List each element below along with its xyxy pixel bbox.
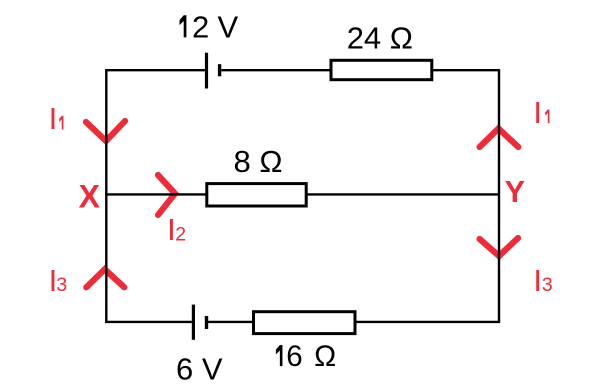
label 16 ohm <box>276 340 336 373</box>
current label I1 right <box>533 95 549 130</box>
current label I3 left <box>49 263 68 298</box>
svg-text:X: X <box>79 179 101 215</box>
svg-text:8 Ω: 8 Ω <box>234 144 283 179</box>
wire top-left segment <box>105 69 205 71</box>
svg-text:I: I <box>533 95 542 130</box>
wire top-right segment <box>433 69 500 71</box>
wire middle-right segment <box>307 193 501 195</box>
label 12 V <box>180 9 239 44</box>
wire middle-left segment <box>105 193 206 195</box>
current arrow I3 left (up chevron) <box>86 269 124 287</box>
svg-text:I: I <box>49 101 58 136</box>
battery B2 6V long plate <box>192 305 195 340</box>
svg-text:Ω: Ω <box>314 340 336 373</box>
svg-text:3: 3 <box>542 274 553 296</box>
battery B2 6V short plate <box>205 316 208 329</box>
wire left vertical (X branch) <box>105 69 107 323</box>
current arrow I1 right (up chevron) <box>480 129 519 148</box>
resistor R1 24ohm body <box>331 60 432 79</box>
battery B1 12V long plate <box>205 53 208 89</box>
svg-text:V: V <box>218 9 239 44</box>
current arrow I1 left (down chevron) <box>86 121 125 141</box>
svg-text:24 Ω: 24 Ω <box>347 21 413 56</box>
resistor R2 8ohm body <box>207 184 306 206</box>
wire top-middle segment <box>221 69 330 71</box>
current label I1 left <box>49 101 64 136</box>
current label I3 right <box>533 263 552 298</box>
wire bottom-right segment <box>356 321 500 323</box>
svg-text:6: 6 <box>286 340 302 373</box>
svg-text:3: 3 <box>56 274 67 296</box>
wire right vertical (Y branch) <box>498 69 500 323</box>
svg-text:Y: Y <box>505 175 525 209</box>
svg-text:2: 2 <box>175 224 186 246</box>
current arrow I3 right (down chevron) <box>480 238 518 256</box>
wire bottom-left segment <box>105 321 192 323</box>
current arrow I2 (right chevron) <box>158 175 175 215</box>
battery B1 12V short plate <box>218 64 221 76</box>
svg-text:2: 2 <box>192 9 209 44</box>
svg-text:6 V: 6 V <box>176 351 223 386</box>
current label I2 <box>167 212 186 247</box>
resistor R3 16ohm body <box>254 312 356 334</box>
svg-text:I: I <box>533 263 542 298</box>
wire bottom-middle segment <box>208 321 254 323</box>
